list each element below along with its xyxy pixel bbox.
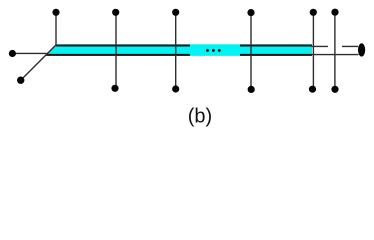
svg-text:(b): (b): [188, 106, 212, 128]
